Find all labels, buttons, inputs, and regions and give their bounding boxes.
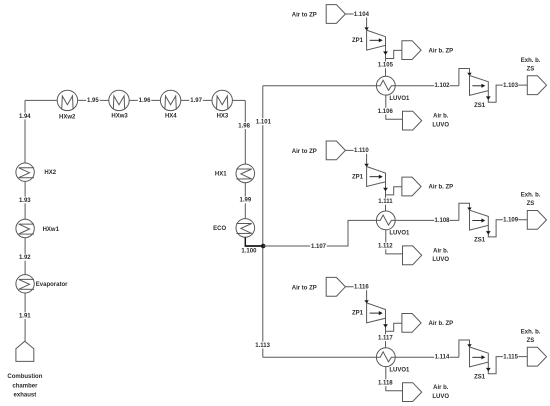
stream label 1.101	[255, 118, 272, 125]
svg-text:HX2: HX2	[44, 170, 56, 176]
svg-text:Air b. ZP: Air b. ZP	[429, 48, 454, 54]
wire ZP1 outlet down to LUVO1 train 2 (stream 1.111)	[385, 182, 387, 211]
stream label 1.106	[378, 108, 394, 115]
exhaust pentagon train 2	[527, 211, 546, 230]
stream label 1.98	[237, 122, 251, 129]
wire ZS1 outlet to exhaust train 3 (stream 1.115)	[488, 357, 527, 374]
wire HXw2-HXw3 (stream 1.95)	[78, 99, 109, 101]
arrowhead into ZS1 train 3	[467, 344, 471, 347]
svg-text:Air b. ZP: Air b. ZP	[429, 185, 454, 191]
stream label 1.95	[86, 97, 100, 104]
stream label 1.112	[378, 243, 394, 250]
svg-text:1.105: 1.105	[378, 63, 394, 69]
wire HXw3-HX4 (stream 1.96)	[129, 99, 160, 101]
Evaporator circle	[16, 275, 34, 293]
wire Evaporator to combustion exhaust (stream 1.91)	[24, 293, 26, 341]
Air b. ZP pentagon train 1	[402, 41, 421, 60]
svg-text:ZS1: ZS1	[474, 103, 486, 109]
wire branch to Air b. ZP train 1	[386, 50, 402, 58]
fan ZP1 trapezoid train 1	[367, 30, 386, 50]
wire LUVO1 to Air b. LUVO train 3 (stream 1.118)	[386, 367, 403, 391]
stream label 1.97	[189, 97, 203, 104]
svg-text:HX4: HX4	[165, 114, 177, 120]
wire LUVO1 to Air b. LUVO train 2 (stream 1.112)	[386, 230, 403, 254]
fan ZS1 trapezoid train 2	[470, 210, 489, 230]
svg-text:1.104: 1.104	[354, 12, 370, 18]
svg-text:1.106: 1.106	[378, 109, 394, 115]
wire HXw1-Evaporator (stream 1.92)	[24, 238, 26, 275]
HX2 sigma symbol	[19, 168, 34, 178]
wire down into ZP1 train 3	[366, 287, 368, 303]
LUVO1 zigzag symbol train 2	[376, 215, 395, 225]
junction node 1.100 dot	[261, 244, 266, 249]
svg-text:ZS: ZS	[527, 338, 535, 344]
Air b. LUVO pentagon train 1	[403, 111, 422, 130]
svg-text:1.111: 1.111	[378, 199, 393, 205]
stream label 1.91	[18, 312, 32, 319]
ZP1 internal flow arrow train 2	[370, 176, 380, 178]
svg-text:ZS1: ZS1	[474, 238, 486, 244]
HX3 M symbol	[217, 96, 228, 110]
arrowhead into ZS1 train 2	[467, 208, 471, 211]
svg-text:1.101: 1.101	[256, 120, 272, 126]
svg-text:exhaust: exhaust	[14, 393, 37, 399]
svg-text:1.115: 1.115	[503, 354, 518, 360]
ZP1 internal flow arrow train 3	[370, 312, 380, 314]
wire LUVO1 to ZS1 train 3 (stream 1.114)	[395, 356, 459, 358]
svg-text:1.98: 1.98	[238, 124, 250, 130]
stream label 1.108	[434, 217, 450, 224]
svg-text:LUVO1: LUVO1	[389, 367, 410, 373]
Air b. ZP pentagon train 3	[402, 314, 421, 333]
svg-text:HXw3: HXw3	[111, 114, 128, 120]
svg-text:1.116: 1.116	[354, 285, 369, 291]
svg-text:Combustion: Combustion	[7, 374, 42, 380]
svg-text:Exh. b.: Exh. b.	[521, 58, 541, 64]
svg-text:LUVO: LUVO	[432, 123, 449, 129]
stream label 1.94	[18, 113, 32, 120]
svg-text:ZP1: ZP1	[352, 174, 364, 180]
wire air inlet to ZP1 train 2 (stream 1.110)	[345, 149, 366, 151]
arrowhead ZS1 outlet train 1	[486, 96, 491, 100]
HX1 sigma symbol	[236, 169, 251, 179]
svg-text:1.100: 1.100	[241, 248, 257, 254]
heat exchanger HX2 circle	[16, 163, 34, 181]
wire ZP1 outlet down to LUVO1 train 1 (stream 1.105)	[385, 45, 387, 76]
svg-text:1.94: 1.94	[19, 114, 31, 120]
svg-text:Air to ZP: Air to ZP	[292, 285, 317, 291]
wire trunk to LUVO1 train 1 (stream 1.101 branch)	[263, 85, 377, 87]
arrowhead ZP1 outlet train 3	[383, 324, 388, 328]
wire up into ZS1 train 2	[459, 203, 470, 220]
svg-text:LUVO1: LUVO1	[389, 231, 410, 237]
svg-text:ZP1: ZP1	[352, 38, 364, 44]
arrowhead ZS1 outlet train 3	[486, 368, 491, 372]
ZS1 internal flow arrow train 2	[472, 220, 482, 222]
stream label 1.107	[310, 243, 327, 250]
Air b. LUVO pentagon train 2	[403, 246, 422, 265]
svg-text:LUVO: LUVO	[432, 394, 449, 400]
wire trunk to LUVO1 train 3	[263, 356, 377, 358]
stream label 1.105	[378, 62, 394, 69]
ZS1 internal flow arrow train 1	[472, 85, 482, 87]
HXw2 M symbol	[62, 96, 73, 110]
svg-text:Air b.: Air b.	[433, 248, 449, 254]
wire air inlet to ZP1 train 1 (stream 1.104)	[345, 13, 366, 15]
wire HX3 to right column	[232, 99, 245, 101]
heat exchanger HX1 circle	[236, 164, 255, 183]
trunk wire (streams 1.101/1.113)	[262, 86, 264, 358]
wire ECO down (black)	[244, 237, 246, 246]
wire down into ZP1 train 2	[366, 150, 368, 166]
stream label 1.111	[378, 198, 394, 205]
wire air inlet to ZP1 train 3 (stream 1.116)	[345, 286, 366, 288]
wire LUVO1 to ZS1 train 1 (stream 1.102)	[395, 85, 459, 87]
svg-text:1.114: 1.114	[435, 355, 450, 361]
wire down into ZP1 train 1	[366, 14, 368, 30]
LUVO1 zigzag symbol train 3	[376, 352, 395, 362]
svg-text:ZP1: ZP1	[352, 311, 364, 317]
svg-text:ECO: ECO	[213, 226, 226, 232]
svg-text:ZS: ZS	[527, 66, 535, 72]
exhaust pentagon train 1	[527, 76, 546, 95]
stream label 1.92	[18, 254, 32, 261]
fan ZS1 trapezoid train 1	[470, 76, 489, 96]
arrowhead ZS1 outlet train 2	[486, 231, 491, 235]
wire HX4-HX3 (stream 1.97)	[181, 99, 212, 101]
svg-text:Air b.: Air b.	[433, 385, 449, 391]
wire HX1-ECO (stream 1.99)	[244, 183, 246, 219]
svg-text:1.96: 1.96	[139, 98, 151, 104]
stream label 1.114	[434, 354, 450, 361]
svg-text:HXw2: HXw2	[59, 115, 76, 121]
wire ECO to junction node 1.100 (black)	[245, 245, 264, 247]
exhaust pentagon train 3	[527, 347, 546, 366]
heat exchanger LUVO1 circle train 2	[376, 211, 395, 230]
arrowhead ZP1 outlet train 1	[383, 51, 388, 55]
svg-text:chamber: chamber	[12, 383, 38, 389]
combustion chamber exhaust sink symbol	[16, 341, 34, 361]
wire down to HX2 (stream 1.94)	[24, 100, 26, 163]
svg-text:1.93: 1.93	[19, 198, 31, 204]
svg-text:1.118: 1.118	[378, 381, 393, 387]
wire HXw2 to left column	[25, 99, 57, 101]
stream label 1.96	[138, 97, 152, 104]
svg-text:HX1: HX1	[215, 171, 227, 177]
stream label 1.109	[503, 216, 519, 223]
heat exchanger HXw3 circle	[109, 90, 129, 110]
svg-text:1.103: 1.103	[503, 83, 519, 89]
svg-text:ZS1: ZS1	[474, 374, 486, 380]
stream label 1.118	[378, 379, 394, 386]
air inlet pentagon train 2	[326, 141, 345, 160]
heat exchanger HX3 circle	[212, 90, 232, 110]
wire branch to Air b. ZP train 2	[386, 187, 402, 195]
fan ZP1 trapezoid train 3	[367, 303, 386, 323]
arrowhead into ZP1 train 2	[364, 164, 368, 167]
stream label 1.99	[239, 197, 253, 204]
svg-text:HX3: HX3	[217, 114, 229, 120]
fan ZS1 trapezoid train 3	[470, 347, 489, 367]
arrowhead into ZP1 train 3	[364, 300, 368, 303]
svg-text:1.108: 1.108	[434, 218, 450, 224]
svg-text:ZS: ZS	[527, 201, 535, 207]
svg-text:Air to ZP: Air to ZP	[292, 13, 317, 19]
air inlet pentagon train 3	[326, 277, 345, 296]
svg-text:1.113: 1.113	[255, 343, 270, 349]
wire up into ZS1 train 1	[459, 69, 470, 86]
svg-text:Exh. b.: Exh. b.	[521, 329, 541, 335]
svg-text:1.110: 1.110	[354, 148, 369, 154]
wire branch to Air b. ZP train 3	[386, 323, 402, 331]
svg-text:Air b.: Air b.	[433, 114, 449, 120]
arrowhead into ZP1 train 1	[364, 27, 368, 30]
HXw1 sigma symbol	[19, 224, 34, 234]
svg-text:Air to ZP: Air to ZP	[292, 149, 317, 155]
stream label 1.102	[434, 82, 450, 89]
wire HX2-HXw1 (stream 1.93)	[24, 181, 26, 219]
stream label 1.117	[378, 334, 394, 341]
Air b. ZP pentagon train 2	[402, 177, 421, 196]
stream label 1.103	[503, 82, 519, 89]
LUVO1 zigzag symbol train 1	[376, 80, 395, 90]
stream label 1.113	[254, 342, 271, 349]
svg-text:1.112: 1.112	[378, 244, 393, 250]
svg-text:1.107: 1.107	[311, 244, 327, 250]
svg-text:1.97: 1.97	[190, 98, 202, 104]
wire HX3 down to HX1 (stream 1.98)	[244, 100, 246, 164]
stream label 1.115	[503, 353, 519, 360]
fan ZP1 trapezoid train 2	[367, 167, 386, 187]
heat exchanger HXw2 circle	[57, 90, 77, 110]
ZS1 internal flow arrow train 3	[472, 356, 482, 358]
wire LUVO1 to ZS1 train 2 (stream 1.108)	[395, 219, 459, 221]
svg-text:1.102: 1.102	[434, 83, 450, 89]
air inlet pentagon train 1	[326, 5, 345, 24]
svg-text:HXw1: HXw1	[43, 227, 60, 233]
stream label 1.93	[18, 197, 32, 204]
svg-text:1.117: 1.117	[378, 336, 393, 342]
wire junction to LUVO1 train 2 (stream 1.107)	[263, 220, 376, 246]
wire ZS1 outlet to exhaust train 1 (stream 1.103)	[488, 85, 527, 102]
wire ZS1 outlet to exhaust train 2 (stream 1.109)	[488, 220, 527, 237]
economizer ECO circle	[236, 219, 255, 238]
heat exchanger LUVO1 circle train 3	[376, 348, 395, 367]
wire up into ZS1 train 3	[459, 340, 470, 357]
wire ZP1 outlet down to LUVO1 train 3 (stream 1.117)	[385, 318, 387, 348]
arrowhead into ZS1 train 1	[467, 73, 471, 76]
stream label 1.110	[354, 147, 370, 154]
stream label 1.116	[354, 283, 370, 290]
wire LUVO1 to Air b. LUVO train 1 (stream 1.106)	[386, 95, 403, 119]
HXw3 M symbol	[113, 96, 124, 110]
Evaporator sigma symbol	[19, 279, 34, 289]
svg-text:LUVO: LUVO	[432, 257, 449, 263]
svg-text:LUVO1: LUVO1	[389, 96, 410, 102]
stream label 1.104	[354, 11, 370, 18]
arrowhead ZP1 outlet train 2	[383, 188, 388, 192]
svg-text:Exh. b.: Exh. b.	[521, 193, 541, 199]
svg-text:1.109: 1.109	[503, 218, 519, 224]
svg-text:Air b. ZP: Air b. ZP	[429, 321, 454, 327]
ZP1 internal flow arrow train 1	[370, 39, 380, 41]
Air b. LUVO pentagon train 3	[403, 383, 422, 402]
heat exchanger HX4 circle	[160, 90, 180, 110]
ECO sigma symbol	[236, 224, 251, 234]
svg-text:1.95: 1.95	[87, 98, 99, 104]
svg-text:1.92: 1.92	[19, 255, 31, 261]
svg-text:1.91: 1.91	[19, 314, 31, 320]
svg-text:Evaporator: Evaporator	[36, 282, 68, 288]
HX4 M symbol	[165, 96, 176, 110]
heat exchanger LUVO1 circle train 1	[376, 76, 395, 95]
svg-text:1.99: 1.99	[240, 198, 252, 204]
heat exchanger HXw1 circle	[16, 219, 34, 237]
